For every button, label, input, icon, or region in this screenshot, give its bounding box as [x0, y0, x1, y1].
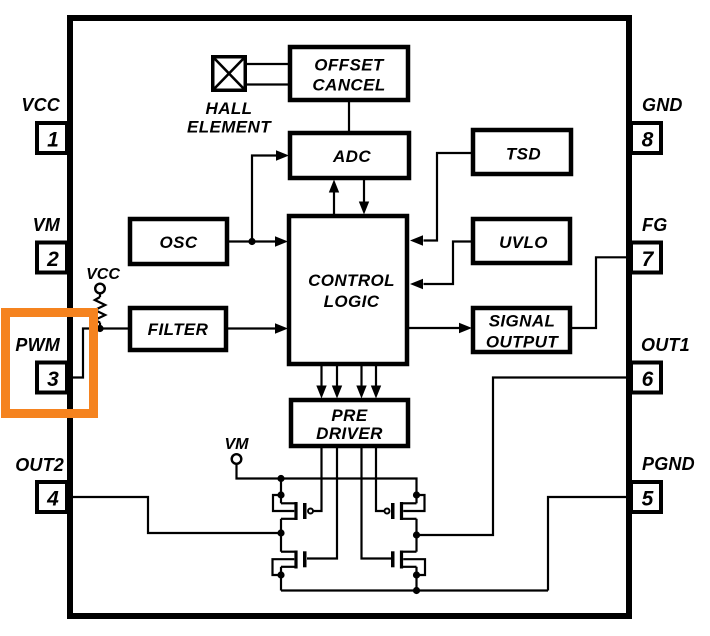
svg-text:CANCEL: CANCEL	[312, 76, 385, 95]
pin 8 box (GND)	[631, 123, 661, 153]
svg-text:OUT2: OUT2	[15, 455, 64, 475]
svg-text:FG: FG	[642, 215, 667, 235]
VCC terminal (pull-up supply)	[86, 266, 120, 293]
wire VM rail (top of H-bridge)	[281, 479, 417, 496]
transistor Q3 (right high-side P-MOSFET)	[385, 491, 425, 535]
node A (OSC junction dot)	[248, 238, 255, 245]
svg-text:OFFSET: OFFSET	[314, 56, 385, 75]
node B (filter input junction dot)	[96, 325, 103, 332]
block ADC	[290, 133, 409, 178]
svg-text:VM: VM	[225, 436, 250, 453]
arrow control logic to pre driver 3	[356, 364, 366, 399]
block FILTER	[130, 308, 226, 350]
svg-text:FILTER: FILTER	[148, 320, 209, 339]
svg-text:VCC: VCC	[21, 95, 60, 115]
wire node A to control logic (arrow)	[252, 236, 288, 246]
pin 3 box (PWM)	[37, 363, 67, 393]
VM terminal (motor supply)	[225, 436, 250, 464]
svg-text:OUTPUT: OUTPUT	[486, 333, 560, 352]
IC package outline	[70, 18, 629, 616]
wire node A to ADC (arrow)	[252, 150, 289, 241]
wire signal output to pin 7 (FG)	[570, 257, 629, 328]
node phase OUT2 (left leg midpoint)	[277, 529, 284, 536]
wire TSD to control logic (arrow)	[410, 153, 473, 246]
block SIGNAL OUTPUT	[473, 308, 570, 352]
svg-text:OSC: OSC	[159, 233, 197, 252]
svg-text:OUT1: OUT1	[641, 335, 690, 355]
resistor R (PWM pull-up)	[95, 293, 105, 328]
transistor Q4 (right low-side N-MOSFET)	[391, 535, 425, 591]
label HALL ELEMENT	[187, 99, 272, 137]
wire bridge source rail	[281, 589, 548, 591]
arrow control logic to pre driver 1	[316, 364, 326, 399]
transistor Q2 (left low-side N-MOSFET)	[273, 533, 307, 591]
block UVLO	[473, 219, 570, 263]
svg-text:7: 7	[642, 248, 655, 271]
svg-text:2: 2	[46, 248, 59, 271]
wire control logic to signal output (arrow)	[407, 323, 472, 333]
wire pre driver to Q2 gate	[307, 446, 337, 559]
wire left leg drain	[280, 479, 282, 496]
pin 2 box (VM)	[37, 243, 67, 273]
node VM rail / left leg junction	[277, 475, 284, 482]
wire source rail to pin 5 (PGND)	[548, 497, 629, 591]
wire node B to FILTER	[100, 327, 130, 329]
svg-text:6: 6	[642, 368, 654, 391]
block CONTROL LOGIC	[289, 216, 407, 364]
arrow ADC to control logic (down)	[359, 180, 369, 215]
svg-text:PGND: PGND	[642, 454, 695, 474]
pin 7 box (FG)	[631, 243, 661, 273]
pin 4 box (OUT2)	[37, 482, 67, 512]
block OFFSET CANCEL	[290, 47, 408, 100]
transistor Q1 (left high-side P-MOSFET)	[273, 491, 313, 533]
svg-text:8: 8	[642, 129, 654, 152]
pin 1 box (VCC)	[37, 123, 67, 153]
wire FILTER to control logic (arrow)	[226, 323, 288, 333]
wire OSC output to node A	[227, 240, 252, 242]
svg-text:UVLO: UVLO	[499, 233, 548, 252]
hall element symbol	[213, 57, 246, 91]
svg-text:1: 1	[47, 129, 59, 152]
svg-text:VCC: VCC	[86, 266, 120, 283]
svg-text:CONTROL: CONTROL	[308, 271, 395, 290]
node source rail / right leg junction	[413, 587, 420, 594]
svg-text:LOGIC: LOGIC	[324, 292, 380, 311]
svg-text:GND: GND	[642, 95, 683, 115]
svg-text:VM: VM	[33, 215, 61, 235]
arrow control logic to pre driver 4	[371, 364, 381, 399]
svg-text:4: 4	[46, 488, 59, 511]
block OSC	[130, 219, 227, 264]
svg-text:HALL: HALL	[206, 99, 253, 118]
block TSD	[473, 130, 571, 174]
pin 5 box (PGND)	[631, 482, 661, 512]
svg-text:3: 3	[47, 368, 59, 391]
wire pre driver to Q1 gate	[313, 446, 322, 511]
arrow control logic to ADC (up)	[329, 180, 339, 215]
wire offset cancel to ADC	[348, 100, 350, 133]
svg-text:5: 5	[642, 488, 654, 511]
wire UVLO to control logic (arrow)	[410, 242, 473, 290]
highlight box around PWM pin 3	[6, 313, 94, 414]
svg-text:DRIVER: DRIVER	[316, 424, 383, 443]
wire pre driver to Q4 gate	[362, 446, 392, 559]
wire VM terminal to bridge rail	[237, 464, 282, 479]
wire pin 4 (OUT2) to left phase node	[71, 497, 281, 533]
svg-text:TSD: TSD	[506, 145, 541, 164]
wire pin 6 (OUT1) to right phase node	[417, 378, 630, 536]
svg-text:ADC: ADC	[332, 147, 371, 166]
svg-text:SIGNAL: SIGNAL	[489, 312, 556, 331]
wire pin 3 to node B	[71, 329, 100, 378]
node phase OUT1 (right leg midpoint)	[413, 531, 420, 538]
svg-text:PRE: PRE	[331, 406, 367, 425]
block PRE DRIVER	[291, 400, 408, 446]
wire pre driver to Q3 gate	[376, 446, 385, 511]
svg-text:ELEMENT: ELEMENT	[187, 118, 272, 137]
pin 6 box (OUT1)	[631, 363, 661, 393]
wire hall element to offset cancel (2 lines)	[247, 64, 291, 85]
svg-text:PWM: PWM	[15, 335, 60, 355]
arrow control logic to pre driver 2	[332, 364, 342, 399]
